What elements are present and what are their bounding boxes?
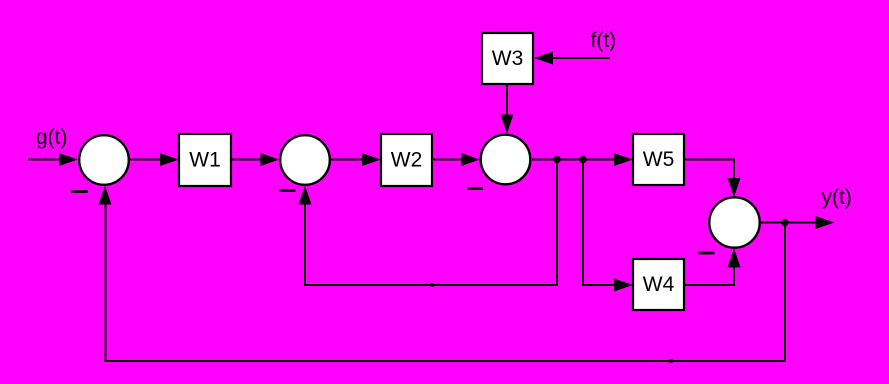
- summing junction S2: [280, 135, 330, 185]
- arrowhead into S3 top (pointing down): [501, 115, 514, 134]
- wire: f(t) input line into W3: [551, 57, 610, 59]
- arrowhead into W5: [614, 153, 633, 166]
- arrowhead into S4 top (pointing down): [728, 178, 741, 197]
- wire: branch from J2 down and right into W4: [583, 160, 614, 286]
- arrowhead into summing junction S2: [261, 153, 280, 166]
- summing junction S4 (output): [709, 197, 759, 247]
- arrowhead into S2 bottom (pointing up): [299, 186, 312, 205]
- arrowhead into W1: [160, 153, 179, 166]
- tiny node mark on outer feedback: [669, 359, 673, 363]
- arrowhead into W3 (pointing left): [534, 52, 553, 65]
- minus sign at S4: [699, 252, 715, 255]
- summing junction S1: [79, 135, 129, 185]
- wire: W5 output right then down into S4: [684, 160, 734, 181]
- wire: inner feedback from J1 down, left, up into S2: [305, 160, 557, 286]
- tiny node mark on inner feedback: [430, 283, 434, 287]
- block W1: [179, 134, 231, 186]
- node dot J1: [553, 156, 560, 163]
- arrowhead output (pointing right): [816, 216, 835, 229]
- node dot J2: [579, 156, 586, 163]
- svg-text:W1: W1: [189, 149, 221, 172]
- arrowhead into S1 bottom (pointing up): [99, 186, 112, 205]
- wire: S3 output line to W5: [532, 159, 614, 161]
- wire: S2 to W2: [331, 159, 364, 161]
- wire: W2 to S3: [432, 159, 462, 161]
- block W5: [633, 134, 684, 185]
- minus sign at S3: [467, 187, 483, 190]
- block W3: [482, 33, 533, 84]
- wire: outer feedback from J3 down, left, up into S1: [106, 204, 786, 361]
- wire: W1 to S2: [231, 159, 262, 161]
- block W4: [633, 259, 684, 310]
- wire: output line y(t): [759, 222, 816, 224]
- wire: W4 output right then up into S4: [684, 266, 734, 285]
- arrowhead into S4 bottom (pointing up): [728, 248, 741, 267]
- svg-text:f(t): f(t): [591, 29, 617, 52]
- svg-text:W3: W3: [492, 47, 524, 70]
- svg-text:y(t): y(t): [822, 186, 852, 209]
- node dot J3 on output: [781, 219, 788, 226]
- wire: S1 to W1: [129, 159, 162, 161]
- summing junction S3: [481, 135, 531, 185]
- minus sign at S2: [279, 189, 296, 192]
- svg-text:g(t): g(t): [36, 126, 68, 149]
- wire: input g(t) line: [28, 159, 61, 161]
- svg-text:W4: W4: [643, 273, 675, 296]
- block W2: [381, 134, 432, 186]
- wire: W3 down to S3: [506, 84, 508, 116]
- arrowhead into summing junction S3: [461, 153, 480, 166]
- svg-text:W5: W5: [643, 148, 675, 171]
- svg-text:W2: W2: [391, 149, 423, 172]
- arrowhead into W4: [614, 279, 633, 292]
- arrowhead into summing junction S1: [59, 153, 78, 166]
- minus sign at S1: [72, 190, 89, 193]
- arrowhead into W2: [362, 153, 381, 166]
